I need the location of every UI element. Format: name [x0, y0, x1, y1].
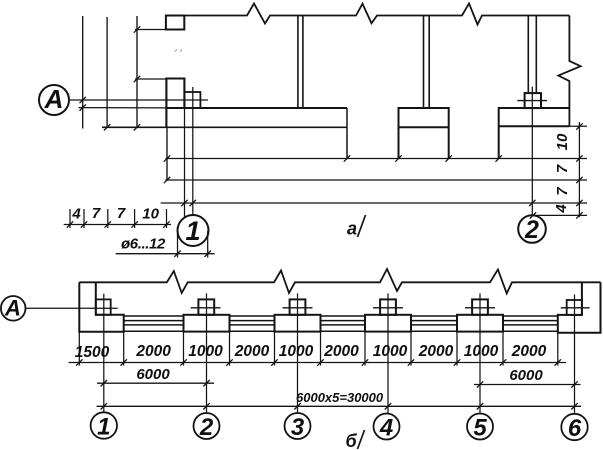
grid circle 3 bottom [285, 413, 311, 439]
left corner block outline [79, 282, 123, 331]
right corner washer line [561, 307, 590, 309]
pier axis4 washer line [373, 307, 403, 309]
svg-text:2000: 2000 [511, 343, 547, 360]
axis 2 bolt leader [206, 293, 208, 413]
grid circle 6 bottom [561, 414, 587, 440]
pier axis5 [457, 315, 503, 332]
left corner anchor plate [96, 299, 111, 314]
pier axis5 washer line [465, 307, 495, 309]
band segment 4 [411, 316, 457, 331]
svg-text:7: 7 [554, 187, 571, 196]
svg-text:1000: 1000 [188, 343, 223, 360]
svg-text:6000х5=30000: 6000х5=30000 [296, 390, 384, 405]
dimension line to pilaster top [135, 78, 167, 80]
ticks on vertical dim [576, 123, 582, 129]
grid circle A bottom [1, 296, 26, 321]
svg-text:1: 1 [185, 216, 200, 246]
svg-text:4: 4 [379, 415, 393, 442]
column C2 [423, 16, 425, 109]
leader from pilaster edge to circle 1 [184, 108, 186, 218]
svg-text:2: 2 [199, 414, 214, 441]
svg-text:6000: 6000 [509, 367, 543, 384]
svg-text:2: 2 [524, 216, 539, 244]
tick on axis A at V1 [80, 97, 86, 103]
pier axis3 washer line [283, 307, 313, 309]
bottom-left dim extensions [69, 209, 71, 228]
axis 1 bolt leader [103, 294, 105, 413]
svg-text:10: 10 [554, 133, 571, 150]
pier axis3 anchor plate [290, 299, 306, 314]
axis A leader line [70, 99, 209, 101]
svg-text:ø6...12: ø6...12 [121, 236, 166, 253]
column C3 bolt axis leader to circle 2 [531, 87, 533, 216]
ticks on L3 [181, 200, 187, 206]
pier axis4 anchor plate [380, 299, 396, 314]
pier axis2 anchor plate [198, 299, 214, 314]
pier axis2 [184, 315, 230, 332]
footing 2 [399, 108, 449, 159]
svg-text:7: 7 [92, 205, 101, 222]
pier axis2 washer line [191, 307, 221, 309]
phi dim left extension [177, 233, 179, 258]
pier axis3 [275, 315, 321, 332]
grid circle 2 bottom [194, 413, 220, 439]
wall top corner notch [166, 16, 184, 30]
svg-text:6000: 6000 [136, 366, 170, 383]
pier axis4 [365, 315, 411, 332]
top edge with 4 break symbols [79, 269, 600, 293]
band segment 3 [321, 316, 366, 331]
grid circle 1 bottom [91, 412, 117, 438]
axis line V3 [136, 16, 138, 128]
long line L2 [166, 179, 588, 181]
column C3 anchor plate [525, 93, 541, 108]
footing top extension line [79, 107, 167, 109]
footing 1 right edge extended [346, 108, 348, 159]
svg-text:7: 7 [554, 164, 571, 173]
dim extensions row1 [79, 332, 558, 366]
svg-text:1500: 1500 [75, 344, 110, 361]
svg-text:A: A [44, 84, 64, 114]
svg-text:4: 4 [553, 204, 570, 214]
svg-text:1000: 1000 [464, 343, 499, 360]
svg-text:2000: 2000 [135, 343, 171, 360]
svg-text:6: 6 [568, 415, 582, 442]
right vertical dimension line [578, 122, 580, 217]
corner anchor bolt axis [192, 87, 194, 215]
pier axis5 anchor plate [472, 299, 488, 314]
column C1 [297, 16, 299, 109]
bottom-left dim line [64, 224, 171, 226]
wall top edge with break symbols [184, 3, 569, 24]
long line L1 [166, 158, 588, 160]
tick footing bottom at V2 [104, 124, 110, 130]
band segment 2 [230, 316, 275, 331]
dim row2 right 6000 line [474, 384, 581, 386]
grid circle 4 bottom [374, 414, 400, 440]
dim row3 30000 line [97, 405, 582, 407]
bottom short line y215 [533, 214, 587, 216]
svg-text:б: б [346, 431, 358, 450]
axis line V2 [106, 17, 108, 128]
axis line V1 [82, 16, 84, 129]
ticks on L2 [164, 177, 170, 183]
svg-text:5: 5 [473, 415, 487, 442]
stray scan mark [175, 50, 183, 52]
svg-text:7: 7 [117, 205, 126, 222]
right corner block outline [558, 282, 601, 333]
tick footing bottom at V3 [134, 124, 140, 130]
ticks bottom-left dim [67, 221, 73, 227]
svg-text:1000: 1000 [373, 343, 408, 360]
band segment 1 [124, 316, 184, 331]
axis 5 bolt leader [479, 293, 481, 413]
axis 3 bolt leader [297, 293, 299, 413]
grid circle 1 top [178, 215, 209, 246]
grid circle A top [39, 85, 69, 115]
dim row2 left 6000 line [97, 382, 214, 384]
axis A leader bottom [26, 307, 118, 309]
tick notch dim at V3 [134, 26, 140, 32]
column C3 washer line [517, 100, 547, 102]
phi dim right extension [207, 231, 209, 258]
wall right edge with break symbol [558, 16, 580, 127]
tick on footing top ext at V1 [80, 104, 86, 110]
long line L3 [161, 202, 587, 204]
footing3 bottom extension to dim [569, 125, 587, 127]
svg-text:4: 4 [71, 206, 81, 223]
svg-text:2000: 2000 [418, 343, 454, 360]
grid circle 5 bottom [467, 414, 493, 440]
axis 6 bolt leader [574, 295, 576, 414]
wall edge extension below footing [166, 127, 168, 181]
phi dim line [116, 253, 215, 255]
ticks on L1 [164, 155, 170, 161]
column C3 [527, 16, 529, 94]
corner anchor plate [184, 92, 200, 108]
dimension line to wall notch [135, 29, 166, 31]
svg-text:2000: 2000 [323, 343, 359, 360]
svg-text:10: 10 [142, 206, 159, 223]
axis 4 bolt leader [387, 293, 389, 413]
band segment 5 [503, 316, 558, 331]
svg-text:A: A [4, 296, 21, 321]
svg-text:1: 1 [97, 414, 110, 441]
ticks dim row1 [76, 359, 561, 365]
right corner anchor plate [567, 300, 582, 315]
footing 1 top [166, 107, 347, 109]
svg-text:а: а [347, 219, 357, 239]
svg-text:1000: 1000 [279, 343, 314, 360]
dim row1 line [69, 362, 566, 364]
footing 3 [499, 108, 570, 159]
svg-text:2000: 2000 [234, 343, 270, 360]
tick pilaster dim at V3 [134, 76, 140, 82]
corner pilaster [166, 79, 184, 128]
grid circle 2 top [518, 215, 546, 243]
footing bottom line with left extension [102, 126, 347, 128]
svg-text:3: 3 [291, 414, 305, 441]
